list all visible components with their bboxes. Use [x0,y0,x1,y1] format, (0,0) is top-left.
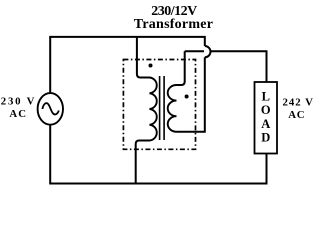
svg-text:AC: AC [288,109,305,121]
AC source circle [38,93,63,125]
svg-text:Transformer: Transformer [134,17,213,32]
svg-text:O: O [261,103,271,117]
wire: primary top terminal from top rail [137,37,150,78]
wire: source bottom, bottom rail, load bottom [50,125,266,184]
transformer core (two lines) [160,76,165,140]
wire: secondary top terminal riser [177,51,185,85]
polarity dot primary [149,64,153,68]
wire: output line to load (right of hop) and load top drop [210,51,266,82]
svg-text:230 V: 230 V [1,96,37,108]
wire: source top to top rail to feed drop (left corner, top rail, right corner) [50,37,205,93]
transformer secondary winding (12V side) [168,85,177,132]
svg-text:D: D [261,131,270,145]
svg-text:L: L [262,90,270,104]
wire: output line to load (left of hop) [185,50,204,52]
transformer primary winding (230V side) [150,78,157,141]
svg-text:AC: AC [9,108,27,120]
wire: feed drop to secondary bottom terminal [177,57,205,132]
transformer T1 boundary (dash-dot box) [123,60,195,150]
AC source sine wave [42,103,58,114]
wire: primary bottom terminal to bottom rail [136,141,150,184]
load box [255,82,278,154]
svg-text:242 V: 242 V [282,97,314,109]
wire hop: feed wire crosses output wire (no connection) [205,46,211,57]
svg-text:A: A [261,117,270,131]
polarity dot secondary [185,95,189,99]
